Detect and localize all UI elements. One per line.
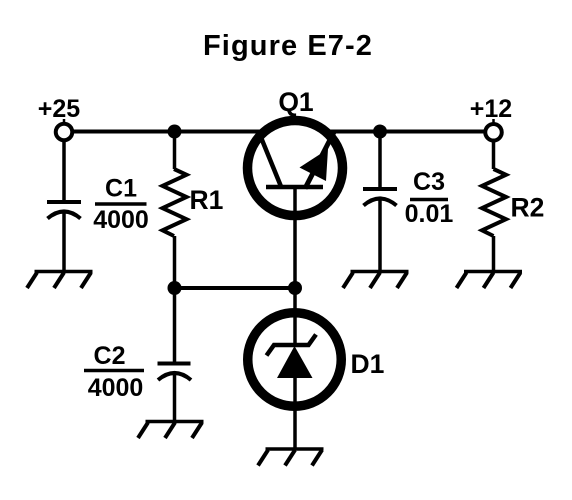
svg-text:Q1: Q1 <box>278 87 313 117</box>
svg-text:4000: 4000 <box>88 374 144 402</box>
svg-text:Figure E7-2: Figure E7-2 <box>203 30 373 62</box>
svg-text:D1: D1 <box>351 349 385 379</box>
svg-text:R2: R2 <box>511 193 545 223</box>
svg-text:C1: C1 <box>105 175 137 203</box>
svg-text:+12: +12 <box>470 95 512 123</box>
svg-text:4000: 4000 <box>93 206 149 234</box>
svg-text:C3: C3 <box>413 168 445 196</box>
svg-text:+25: +25 <box>38 95 81 123</box>
svg-text:R1: R1 <box>190 185 224 215</box>
svg-text:C2: C2 <box>94 342 126 370</box>
svg-text:0.01: 0.01 <box>405 200 454 228</box>
